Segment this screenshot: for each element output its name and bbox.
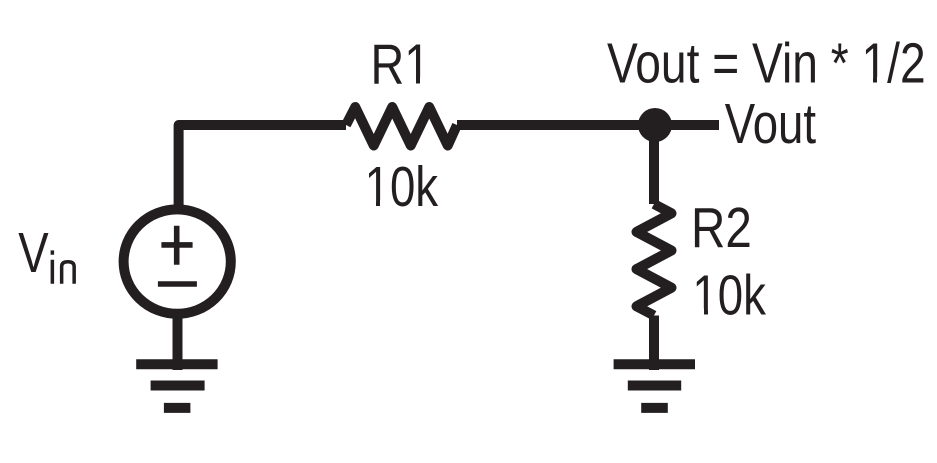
svg-text:R2: R2 (691, 196, 752, 260)
wire node to R2 (649, 125, 659, 204)
svg-text:V: V (18, 220, 49, 284)
resistor R1 (346, 107, 457, 146)
wire from source top to R1 (left corner) (179, 125, 346, 212)
serif trim: '1' of R1 (407, 78, 417, 84)
resistor R2 (637, 204, 672, 316)
wire from R1 to Vout stub (457, 120, 719, 130)
svg-text:Vout = Vin * 1/2: Vout = Vin * 1/2 (607, 31, 926, 95)
serif trim: '1' of 1/2 (864, 77, 874, 83)
wire source bottom to ground (173, 310, 183, 370)
plus sign (161, 226, 192, 265)
ground (source) (136, 364, 217, 408)
ground (R2) (614, 364, 695, 408)
label Vin subscript (52, 250, 74, 283)
wire R2 to ground (649, 316, 659, 371)
serif trim: '1' of 10k (R2) (695, 309, 705, 315)
svg-text:R1: R1 (371, 33, 431, 96)
svg-text:Vout: Vout (725, 91, 816, 155)
svg-text:10k: 10k (365, 154, 439, 218)
node Vout junction dot (638, 108, 672, 142)
minus sign (158, 281, 197, 287)
voltage source V1 circle (124, 209, 231, 313)
svg-text:10k: 10k (692, 262, 766, 326)
serif trim: '1' of 10k (R1) (367, 200, 377, 206)
